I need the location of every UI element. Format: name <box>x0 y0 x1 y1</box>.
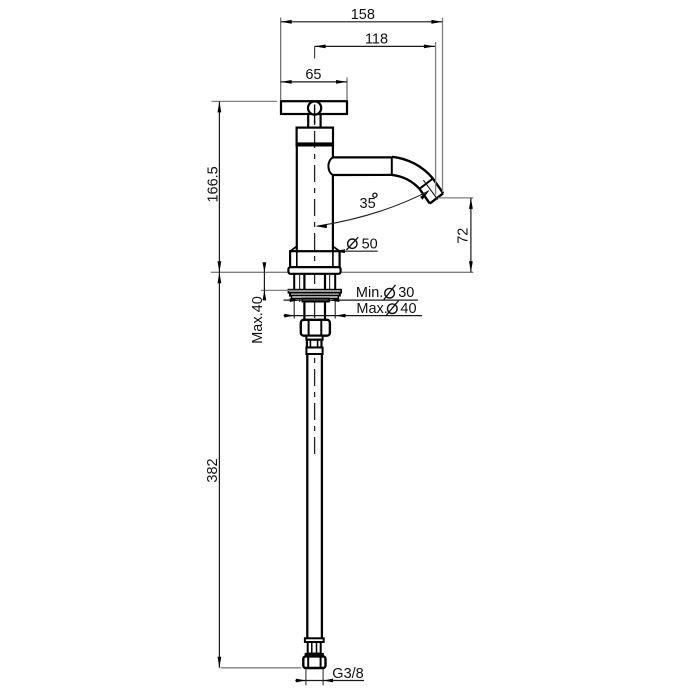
bonnet black band <box>297 142 333 145</box>
svg-text:35: 35 <box>360 196 376 212</box>
supply pipe <box>306 354 308 638</box>
dimension 118 <box>315 45 435 47</box>
spout bottom line <box>332 174 392 176</box>
nozzle inner side <box>420 189 430 204</box>
washer 1 <box>288 290 341 293</box>
extension line 158 right <box>442 18 444 193</box>
thread inner lines / min30 extensions <box>299 274 301 302</box>
svg-text:Max.: Max. <box>356 301 387 317</box>
extension line bottom nut <box>221 667 302 669</box>
bottom hex nut G3/8 <box>303 656 325 668</box>
svg-text:65: 65 <box>305 67 321 83</box>
extension line countertop right <box>342 271 474 273</box>
svg-text:30: 30 <box>398 285 414 301</box>
svg-text:50: 50 <box>362 236 378 252</box>
svg-text:72: 72 <box>456 228 472 244</box>
spout inlet cap <box>328 157 332 175</box>
stem <box>307 114 309 128</box>
svg-text:Min.: Min. <box>356 285 383 301</box>
dimension 65 <box>281 81 347 83</box>
handle center mark <box>314 105 316 124</box>
washer 2 <box>290 293 340 296</box>
bottom band <box>305 638 324 642</box>
extension line 65 right <box>346 78 348 101</box>
leader Min.O30 <box>284 299 418 301</box>
hex locknut <box>301 320 330 336</box>
body right edge lower <box>332 175 334 251</box>
dimension 158 <box>281 21 443 23</box>
step ring <box>302 298 328 301</box>
leader O50 <box>334 250 378 252</box>
dimension G3/8 <box>295 680 364 682</box>
max40 extension lines <box>293 290 295 319</box>
svg-text:Max.40: Max.40 <box>250 296 266 344</box>
locknut facets <box>308 321 310 335</box>
collar chamfer right <box>333 246 340 251</box>
band under tiny nut <box>306 348 322 355</box>
center axis dash-dot line <box>314 104 316 455</box>
svg-text:40: 40 <box>400 301 416 317</box>
extension line 158 left / 65 left <box>280 18 282 101</box>
svg-text:158: 158 <box>351 7 375 23</box>
svg-text:382: 382 <box>205 458 221 482</box>
extension lines G3/8 <box>305 669 307 685</box>
body left edge <box>296 146 298 251</box>
collar O50 <box>290 251 340 267</box>
svg-text:118: 118 <box>365 32 388 48</box>
bonnet <box>297 128 333 146</box>
tiny nut <box>307 340 322 348</box>
dimension Max.40 vertical <box>263 263 265 272</box>
body right edge upper <box>332 146 334 158</box>
nozzle joint face <box>420 179 433 189</box>
spout top line <box>332 156 392 158</box>
spout inner bend arc <box>392 175 420 189</box>
shank upper section <box>303 274 305 290</box>
svg-text:G3/8: G3/8 <box>332 666 363 682</box>
dimension 72 <box>470 198 472 272</box>
flange <box>288 267 340 274</box>
leader Max.O40 <box>284 315 423 317</box>
nozzle tip face <box>430 193 443 203</box>
dimension 382 <box>218 272 220 668</box>
extension line max40 washer stub <box>261 289 300 291</box>
bottom dark band <box>305 654 323 657</box>
shank <box>303 302 305 320</box>
nozzle outer side <box>433 179 443 194</box>
collar inner lines <box>296 251 298 267</box>
washer 3 <box>292 296 339 299</box>
handle hub circle <box>308 101 321 114</box>
spout seam <box>391 157 393 175</box>
nozzle aerator line <box>423 180 437 199</box>
sub collar <box>306 336 322 340</box>
svg-text:166.5: 166.5 <box>205 166 221 202</box>
extension line 118 right <box>435 42 437 195</box>
angle 35 deg arc <box>317 191 429 226</box>
bottom section <box>308 642 321 654</box>
handle bar <box>281 101 347 114</box>
spout outer bend arc <box>392 157 433 179</box>
thread tube <box>293 274 295 290</box>
extension line handle top <box>212 100 278 102</box>
collar chamfer left <box>290 246 297 251</box>
extension line spout tip 72 <box>438 197 473 199</box>
extension line countertop left <box>211 271 287 273</box>
extension line 118 left stub <box>314 46 316 58</box>
dimension 166.5 <box>218 101 220 272</box>
